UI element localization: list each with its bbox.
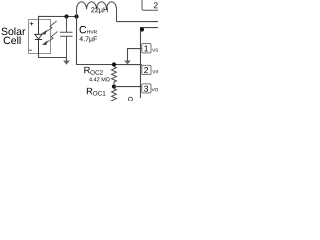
svg-text:4.7µF: 4.7µF (79, 36, 97, 43)
partial circle mark bottom (128, 97, 132, 101)
IC corner dot (140, 27, 144, 31)
pin 3 box (142, 84, 162, 94)
plus terminal mark (30, 22, 34, 26)
wire VSS pin 1 to ground (127, 49, 142, 61)
node VOC_SAMP junction dot (112, 84, 116, 88)
svg-text:22µH: 22µH (91, 5, 108, 14)
svg-text:OC1: OC1 (93, 91, 106, 98)
light arrow upper (42, 21, 56, 34)
ground G1 arrow (63, 57, 70, 64)
node ROC2 top junction dot (112, 62, 116, 66)
capacitor CHVR (60, 16, 73, 57)
resistor ROC2 (112, 67, 117, 84)
pin 1 box (142, 43, 162, 53)
light arrow lower (43, 31, 58, 44)
svg-text:1: 1 (144, 43, 149, 53)
inductor L1 22uH (77, 2, 117, 22)
label Solar Cell (1, 26, 26, 47)
node VIN junction dot at inductor (74, 14, 78, 18)
svg-text:4.42 MΩ: 4.42 MΩ (89, 77, 110, 83)
svg-text:2: 2 (144, 65, 149, 75)
svg-text:2: 2 (153, 0, 158, 10)
pin 20 box (top, cut off) (142, 0, 160, 10)
svg-text:VSS: VSS (152, 48, 158, 53)
svg-text:Cell: Cell (3, 35, 21, 47)
label ROC2 (84, 65, 104, 76)
wire: solar cell bottom to ground (38, 53, 66, 57)
resistor ROC1 (112, 89, 117, 103)
node VIN junction dot at capacitor (64, 14, 68, 18)
wire: inductor to LBST (right edge) (117, 21, 158, 23)
solar cell PV1 box (28, 19, 50, 53)
wire: VIN rail down to ROC divider (76, 16, 142, 64)
IC U1 boundary (140, 28, 158, 99)
label ROC1 (86, 86, 106, 97)
svg-text:VOC: VOC (152, 87, 158, 92)
pin 2 box (142, 65, 160, 75)
photodiode D1 (35, 20, 42, 54)
wire: riser from solar cell top to VIN rail (39, 16, 78, 19)
svg-text:HVR: HVR (87, 30, 98, 36)
svg-text:OC2: OC2 (90, 70, 103, 77)
svg-text:3: 3 (144, 84, 149, 94)
label CHVR (79, 24, 98, 43)
wire VOC_SAMP to pin 3 (114, 86, 142, 88)
minus terminal mark (29, 49, 32, 51)
ground G2 arrow (124, 61, 131, 65)
svg-text:VIN: VIN (152, 69, 158, 74)
